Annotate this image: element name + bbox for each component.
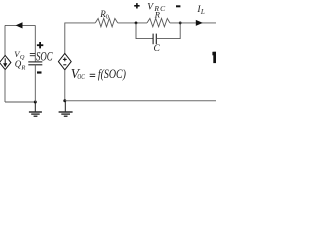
wire: left loop left vertical	[4, 25, 6, 55]
capacitor QR (SOC integrator, horizontal plates)	[28, 62, 42, 65]
wire: below VOC source	[64, 70, 66, 101]
capacitor C (vertical plates)	[153, 34, 156, 45]
svg-text:RC: RC	[153, 4, 166, 13]
ground (main circuit)	[59, 101, 73, 117]
svg-text:SOC: SOC	[36, 49, 53, 63]
arrow: load current IL (points right)	[196, 20, 203, 26]
label: = sign (VOC = f(SOC))	[90, 74, 96, 77]
ground (left, SOC subcircuit)	[29, 102, 42, 116]
svg-text:0: 0	[106, 13, 109, 20]
wire: left loop top rail	[5, 24, 35, 26]
svg-text:R: R	[20, 65, 25, 72]
label: + polarity of VRC	[134, 3, 139, 8]
label: VOC = f(SOC)	[71, 66, 126, 81]
label: QR (capacity)	[15, 59, 26, 71]
label: = sign (VQ = SOC)	[30, 53, 36, 56]
label: VQ = SOC	[14, 49, 53, 63]
resistor R0 (zigzag)	[95, 18, 117, 26]
wire: main bottom rail	[65, 100, 216, 102]
svg-text:f(SOC): f(SOC)	[98, 67, 126, 81]
label: VRC	[147, 2, 166, 13]
svg-text:C: C	[154, 44, 161, 54]
wire: below left diamond	[4, 70, 6, 102]
node: RC left junction	[135, 22, 138, 25]
dependent current source VQ/QR (diamond, arrow down)	[0, 55, 11, 69]
arrow: SOC loop current direction (points left)	[16, 22, 23, 28]
wire: below SOC capacitor	[34, 65, 36, 102]
wire: left loop bottom rail	[5, 101, 35, 103]
wire: left loop right vertical	[34, 25, 36, 61]
resistor R (zigzag in RC pair)	[147, 18, 170, 26]
node: junction at SOC branch bottom	[34, 101, 37, 104]
wire: riser above VOC source	[65, 23, 96, 54]
wire: RC block lower branch left	[136, 23, 153, 39]
terminal mark at right edge (cropped)	[212, 52, 216, 63]
label: + polarity of SOC	[37, 42, 43, 48]
svg-text:OC: OC	[77, 73, 85, 81]
node: junction at VOC bottom / ground	[63, 99, 66, 102]
dependent voltage source VOC (diamond with +/-)	[58, 53, 71, 69]
wire: RC block lower branch right	[156, 23, 180, 39]
svg-text:L: L	[200, 8, 205, 16]
label: - polarity of VRC	[176, 5, 180, 7]
wire: rail RC block to right edge	[170, 22, 216, 24]
label: - polarity of SOC	[37, 71, 42, 73]
label: R0	[99, 9, 109, 20]
wire: rail R0 to RC block	[118, 22, 147, 24]
node: RC right junction	[179, 22, 182, 25]
label: IL	[196, 5, 205, 16]
